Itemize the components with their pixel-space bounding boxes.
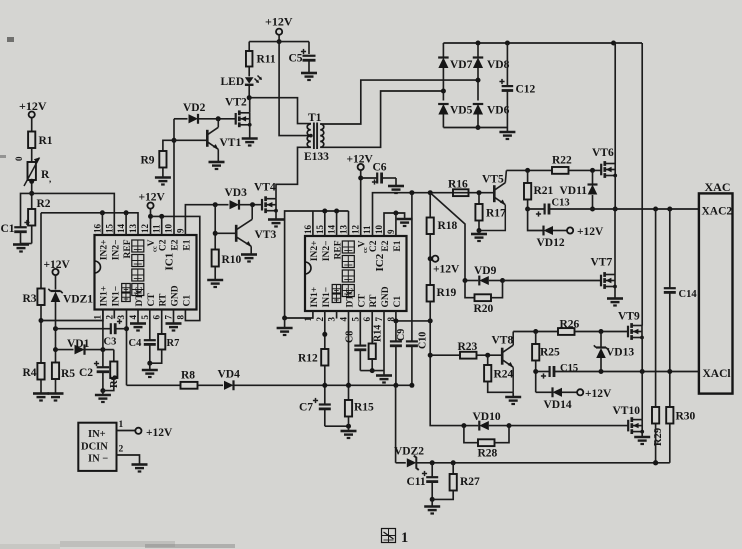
svg-text:C9: C9	[396, 329, 407, 341]
svg-text:E1: E1	[393, 240, 403, 251]
svg-text:R28: R28	[478, 448, 498, 460]
svg-text:C3: C3	[104, 337, 117, 348]
resistor R2	[28, 209, 35, 226]
resistor R8	[181, 382, 198, 389]
svg-text:13: 13	[339, 225, 349, 235]
wire IC1 pin14 stub	[125, 213, 127, 235]
svg-text:11: 11	[152, 224, 162, 233]
svg-text:E2: E2	[381, 240, 391, 251]
svg-text:R27: R27	[460, 476, 480, 488]
svg-text:VT10: VT10	[613, 405, 641, 417]
svg-text:6: 6	[152, 315, 162, 320]
svg-text:VT6: VT6	[592, 147, 614, 159]
zener VDZ1	[51, 290, 61, 292]
ground (R4)	[33, 392, 49, 395]
wire IC1 pin2 stub	[113, 310, 115, 319]
svg-text:VD12: VD12	[537, 237, 565, 249]
resistor R1	[28, 132, 35, 149]
svg-text:+12V: +12V	[139, 192, 166, 204]
svg-text:+12V: +12V	[265, 15, 293, 29]
wire IC1 pin3 feedback column	[126, 310, 128, 386]
wire XAC2 net	[549, 208, 699, 210]
wire VT7 source to ground	[614, 287, 616, 299]
ground (C5)	[301, 72, 317, 75]
power +12V (R18/R19 node)	[428, 256, 433, 261]
svg-text:R30: R30	[676, 411, 696, 423]
svg-text:R10: R10	[222, 254, 242, 266]
ground (C4/R7)	[149, 363, 151, 369]
svg-text:1: 1	[401, 530, 408, 546]
ground (C1)	[13, 243, 29, 246]
svg-text:C11: C11	[407, 476, 426, 488]
wire IC1 pin9 to VD3	[185, 205, 228, 235]
ground (C11/R27)	[431, 499, 433, 506]
svg-text:R11: R11	[257, 54, 276, 66]
wire R29 column	[655, 209, 657, 407]
svg-text:VT8: VT8	[492, 335, 514, 347]
resistor R23	[460, 352, 477, 359]
svg-text:8: 8	[175, 315, 185, 320]
resistor R29	[652, 407, 659, 424]
svg-text:IN2+: IN2+	[99, 240, 109, 261]
svg-text:R3: R3	[23, 293, 37, 305]
svg-text:V: V	[147, 239, 157, 246]
svg-text:VD14: VD14	[544, 399, 572, 411]
wire VD10 to VT10 gate	[509, 425, 628, 427]
wire R19 column down to VD10 line	[430, 302, 464, 426]
svg-text:VT1: VT1	[220, 137, 242, 149]
svg-text:13: 13	[128, 224, 138, 234]
resistor R24	[487, 355, 489, 365]
svg-text:2: 2	[119, 445, 124, 455]
svg-text:R2: R2	[37, 198, 51, 210]
svg-text:12: 12	[140, 224, 150, 234]
svg-text:CT: CT	[147, 293, 157, 307]
scan artifacts	[7, 37, 14, 42]
svg-text:R9: R9	[141, 155, 155, 167]
svg-text:XAC2: XAC2	[702, 206, 733, 218]
svg-text:R22: R22	[552, 155, 572, 167]
wire IC2 pin8 bus to R19 column	[396, 311, 430, 321]
resistor R11	[248, 42, 250, 51]
resistor R27	[452, 463, 454, 474]
wire R8/VD4 bus	[127, 384, 181, 386]
svg-text:VD2: VD2	[183, 102, 206, 114]
svg-text:VT4: VT4	[254, 182, 276, 194]
wire VT4 drain to transformer primary bottom	[276, 147, 311, 198]
wire VT6 source to XAC2	[614, 176, 616, 210]
svg-text:VD3: VD3	[225, 187, 248, 199]
svg-text:VT3: VT3	[255, 229, 277, 241]
svg-text:C2: C2	[369, 240, 379, 252]
svg-text:,: ,	[49, 174, 51, 184]
svg-text:DCIN: DCIN	[81, 442, 108, 453]
svg-text:VD13: VD13	[606, 347, 634, 359]
svg-text:11: 11	[362, 225, 372, 234]
wire bus to VDZ2	[395, 385, 397, 463]
op-amp IC2 (TL494 PWM controller)	[305, 236, 407, 311]
svg-text:cc: cc	[362, 247, 369, 253]
wire IC2 pin3 stub	[336, 311, 338, 319]
power +12V (VD12)	[567, 227, 573, 233]
svg-text:3: 3	[327, 317, 337, 322]
svg-text:C1: C1	[182, 295, 192, 307]
svg-text:7: 7	[374, 317, 384, 322]
svg-text:7: 7	[164, 315, 174, 320]
svg-text:5: 5	[350, 317, 360, 322]
ground (VT10)	[634, 436, 650, 439]
svg-text:C8: C8	[345, 331, 356, 343]
ground (VT1)	[209, 161, 225, 164]
svg-text:+12V: +12V	[146, 427, 173, 439]
svg-text:C12: C12	[516, 84, 536, 96]
wire rectifier top rail	[443, 42, 642, 44]
wire IC2 pin7 GND column	[383, 311, 385, 375]
ground (C12)	[506, 128, 508, 132]
svg-text:C4: C4	[129, 338, 143, 349]
svg-text:R16: R16	[448, 179, 468, 191]
svg-text:1: 1	[92, 315, 102, 320]
ground (C6)	[395, 178, 397, 186]
wire VT7 drain to XAC2	[614, 209, 616, 275]
svg-text:R5: R5	[61, 368, 75, 380]
svg-text:VD5: VD5	[450, 105, 473, 117]
svg-text:+12V: +12V	[577, 226, 604, 238]
svg-text:C14: C14	[679, 289, 698, 300]
ground (VT4)	[268, 218, 284, 221]
svg-text:CT: CT	[357, 294, 367, 308]
resistor R15	[345, 400, 352, 417]
svg-text:R14: R14	[373, 325, 384, 342]
wire IC1 pin16 stub	[101, 213, 103, 235]
svg-text:14: 14	[327, 225, 337, 235]
potentiometer R	[28, 162, 36, 180]
ground (VT7)	[607, 297, 623, 300]
svg-text:VT7: VT7	[591, 257, 613, 269]
power +12V (VD14)	[577, 389, 583, 395]
resistor R5	[52, 363, 59, 380]
svg-text:IN1+: IN1+	[99, 286, 109, 307]
svg-text:C10: C10	[418, 332, 429, 349]
svg-text:6: 6	[362, 317, 372, 322]
svg-text:9: 9	[175, 228, 185, 233]
ground (R9)	[155, 176, 171, 179]
svg-text:DTC: DTC	[346, 287, 356, 307]
svg-text:+12V: +12V	[433, 264, 460, 276]
svg-text:R1: R1	[39, 135, 53, 147]
svg-text:C2: C2	[159, 239, 169, 251]
svg-text:C15: C15	[560, 363, 578, 374]
svg-text:2: 2	[315, 317, 325, 322]
svg-text:R18: R18	[438, 220, 458, 232]
svg-text:14: 14	[116, 224, 126, 234]
ground (VT2)	[242, 137, 258, 140]
resistor R9	[163, 140, 174, 151]
resistor R25	[535, 332, 537, 345]
svg-text:15: 15	[315, 225, 325, 235]
svg-text:10: 10	[374, 225, 384, 235]
svg-text:VT5: VT5	[482, 174, 504, 186]
svg-text:R21: R21	[534, 185, 554, 197]
resistor R21	[527, 170, 529, 183]
svg-text:R17: R17	[486, 208, 506, 220]
ground (R5)	[48, 392, 64, 395]
resistor R17	[478, 193, 480, 204]
wire LED node to transformer primary top	[249, 98, 311, 124]
svg-text:15: 15	[104, 224, 114, 234]
ground (IC1 pin4 DTC)	[137, 310, 139, 324]
wire C8/R14/GND node	[360, 370, 384, 372]
connector XAC	[699, 193, 733, 393]
svg-text:C1: C1	[393, 296, 403, 308]
wire +12V top rail	[249, 41, 309, 43]
ground (IC2 pin1/16)	[284, 318, 286, 328]
svg-text:R4: R4	[23, 367, 37, 379]
svg-text:VDZ2: VDZ2	[394, 446, 424, 458]
resistor R26	[558, 328, 575, 335]
ground (R17/VT5)	[478, 231, 480, 234]
svg-text:VD9: VD9	[474, 265, 497, 277]
svg-text:cc: cc	[151, 246, 158, 252]
resistor R6	[113, 350, 115, 362]
svg-text:R19: R19	[437, 287, 457, 299]
svg-text:C1: C1	[1, 223, 15, 235]
wire C1 / pin15 net	[21, 193, 115, 235]
svg-text:R24: R24	[494, 369, 514, 381]
svg-text:VD8: VD8	[487, 59, 510, 71]
svg-text:LED: LED	[221, 76, 245, 88]
IC1 label 输出控制 (output control)	[132, 240, 144, 252]
svg-text:E2: E2	[171, 239, 181, 250]
IC1 label 反馈 (feedback)	[122, 284, 131, 293]
svg-text:E133: E133	[304, 151, 329, 163]
svg-text:IC2: IC2	[374, 253, 386, 271]
wire secondary top to bridge	[320, 80, 478, 124]
svg-text:0: 0	[14, 156, 24, 161]
svg-text:4: 4	[128, 315, 138, 320]
resistor R22	[552, 167, 569, 174]
svg-text:VD4: VD4	[218, 369, 241, 381]
wire R2/C1 to ground	[21, 243, 32, 245]
ground (IC1 pin7 GND)	[173, 310, 175, 324]
resistor R18	[429, 193, 431, 218]
svg-text:+12V: +12V	[585, 388, 612, 400]
svg-text:GND: GND	[381, 286, 391, 307]
svg-text:VD10: VD10	[473, 411, 501, 423]
svg-text:R20: R20	[474, 303, 494, 315]
caption 图 1	[382, 529, 396, 543]
svg-text:T1: T1	[308, 112, 322, 124]
ground (R10)	[207, 279, 223, 282]
ground (VT8/R24)	[512, 392, 514, 396]
ground (IC2 pin9/10)	[397, 218, 413, 221]
IC2 label 输出控制 (output control)	[342, 241, 354, 253]
wire bus R3 to IC1 pins 16,14,13	[41, 213, 138, 235]
wire rectifier bottom rail	[443, 127, 507, 129]
ground (R15/C7)	[348, 426, 350, 430]
wire VT9 source to XAC1	[641, 338, 643, 372]
svg-text:V: V	[357, 240, 367, 247]
wire C7 to R15 bottom	[325, 425, 349, 427]
wire VD1 to R6	[103, 349, 114, 351]
svg-text:R26: R26	[560, 319, 580, 331]
ground (VT3)	[241, 253, 257, 256]
wire VT8 collector to R26 line	[513, 331, 558, 333]
wire IC2 pin4 DTC column	[348, 311, 350, 400]
resistor R30	[669, 372, 671, 408]
svg-text:IN −: IN −	[88, 454, 108, 465]
wire VT4 source to ground	[275, 211, 277, 219]
svg-text:VD11: VD11	[560, 185, 588, 197]
svg-text:IN2+: IN2+	[310, 241, 320, 262]
svg-text:RT: RT	[369, 294, 379, 308]
wire VT6 drain to rail	[614, 43, 616, 164]
resistor R4	[37, 363, 44, 380]
wire diagonal to VD9 node	[430, 193, 465, 281]
resistor R3	[40, 213, 42, 289]
svg-text:2: 2	[104, 315, 114, 320]
svg-text:9: 9	[386, 229, 396, 234]
svg-text:C6: C6	[373, 162, 387, 174]
svg-text:XACl: XACl	[703, 368, 731, 380]
svg-text:VT2: VT2	[225, 97, 247, 109]
wire IC1 C1-C2 bus (pins 12,11,10,8)	[151, 216, 200, 320]
svg-text:R29: R29	[653, 428, 664, 446]
resistor R16	[493, 192, 495, 194]
svg-text:5: 5	[140, 315, 150, 320]
connector DCIN	[78, 423, 116, 471]
wire IC2 pin11 to control rail	[373, 193, 495, 236]
svg-text:16: 16	[92, 224, 102, 234]
svg-text:XAC: XAC	[705, 180, 731, 194]
wire IC2 pin2 column	[324, 311, 326, 349]
svg-text:E1: E1	[182, 239, 192, 250]
svg-text:1: 1	[119, 420, 124, 430]
svg-text:R25: R25	[540, 347, 560, 359]
wire R3 node to IC1 pin1	[41, 310, 103, 321]
ground (C2/R6)	[95, 394, 111, 397]
wire VT5 collector to R22	[506, 169, 552, 171]
power +12V (DCIN)	[135, 428, 141, 434]
svg-text:GND: GND	[171, 285, 181, 306]
svg-text:IC1: IC1	[164, 253, 176, 271]
svg-text:R15: R15	[354, 402, 374, 414]
svg-text:DTC: DTC	[135, 286, 145, 306]
svg-text:C5: C5	[289, 53, 303, 65]
wire VT9 drain long vertical	[641, 43, 643, 326]
svg-text:RT: RT	[159, 293, 169, 307]
svg-text:VD6: VD6	[487, 105, 510, 117]
IC2 label 反馈 (feedback)	[332, 285, 341, 294]
svg-text:C7: C7	[299, 402, 313, 414]
svg-text:IN1+: IN1+	[310, 287, 320, 308]
svg-text:10: 10	[164, 224, 174, 234]
ground (IC2 pin7)	[376, 374, 392, 377]
svg-text:C13: C13	[552, 198, 570, 209]
svg-text:R12: R12	[298, 353, 318, 365]
svg-text:16: 16	[303, 225, 313, 235]
svg-text:IN1−: IN1−	[322, 287, 332, 308]
svg-text:R8: R8	[181, 370, 195, 382]
svg-text:IN1−: IN1−	[111, 286, 121, 307]
wire secondary bottom to bridge	[320, 91, 443, 147]
svg-text:IN2−: IN2−	[111, 240, 121, 261]
svg-text:4: 4	[339, 317, 349, 322]
resistor R19	[427, 285, 434, 302]
svg-text:R7: R7	[167, 338, 180, 349]
ground (DCIN)	[132, 463, 148, 466]
wire IC1 pin11 stub	[161, 216, 163, 235]
svg-text:IN2−: IN2−	[322, 241, 332, 262]
svg-text:VD7: VD7	[450, 59, 473, 71]
wire VD9 to VT7 gate	[503, 280, 602, 282]
wire VD2/pin10 column	[173, 119, 175, 235]
wire pot to R2	[31, 180, 33, 209]
wire XAC1 net	[554, 371, 699, 373]
svg-text:12: 12	[350, 225, 360, 235]
svg-text:VDZ1: VDZ1	[63, 294, 93, 306]
resistor R10	[214, 205, 216, 250]
wire VT10 drain to XAC1	[641, 372, 643, 420]
resistor R12	[321, 349, 328, 366]
wire IC2 pins 9,10 to ground	[384, 213, 405, 236]
svg-text:VT9: VT9	[618, 311, 640, 323]
svg-text:IN+: IN+	[88, 429, 106, 440]
wire IC2 pins 16,15,14,13,1 ground loop	[285, 211, 349, 318]
op-amp IC1 (TL494 PWM controller)	[95, 235, 197, 310]
wire VT10 source to ground	[641, 432, 643, 437]
svg-text:R23: R23	[458, 341, 478, 353]
svg-text:C2: C2	[79, 367, 93, 379]
svg-text:3: 3	[116, 315, 126, 320]
wire center-tap feed	[279, 42, 311, 136]
wire R23 line	[430, 354, 460, 356]
